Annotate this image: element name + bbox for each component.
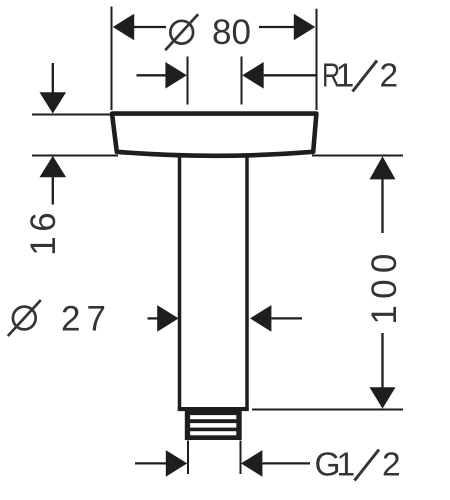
pipe bottom shoulder [178,407,249,411]
extension line dia80 right vertical [316,9,318,110]
extension line R12 right vertical [241,57,243,105]
label dia symbol 27 [13,307,36,330]
extension line flange bottom right [312,155,403,157]
extension line G12 right vertical [240,441,242,475]
dim G12 right arrow [241,450,262,477]
dim 27 right arrow [250,305,271,332]
dim 100 bottom arrow [381,333,383,388]
svg-text:2: 2 [382,447,401,484]
dim dia80 right arrow [259,26,295,28]
threaded end G1/2 [185,407,242,440]
svg-text:27: 27 [61,300,112,339]
svg-text:16: 16 [24,208,63,256]
wire pipe right edge [245,154,249,410]
flange (ceiling rose) outline [112,114,316,156]
svg-text:1: 1 [336,447,355,484]
extension line R12 left vertical [187,57,189,105]
dim G12 left arrow [135,462,166,464]
dim 27 left arrow [148,317,159,319]
svg-text:1: 1 [336,57,355,94]
label dia symbol 80 [170,21,193,44]
extension line pipe end right [252,409,403,411]
svg-text:2: 2 [380,57,399,94]
extension line dia80 left vertical [111,7,113,111]
dim R12 right arrow [264,74,317,76]
svg-text:100: 100 [365,247,404,324]
extension line flange bottom left [32,155,118,157]
svg-text:80: 80 [212,13,251,52]
dim 16 top arrow [52,63,54,94]
dim R12 left arrow [137,74,166,76]
extension line flange top left [32,114,111,116]
extension line G12 left vertical [187,441,189,475]
dim dia80 left arrow [133,26,166,28]
dim 16 bottom arrow [40,156,67,177]
wire pipe left edge [178,154,182,410]
dim 100 top arrow [370,156,396,179]
